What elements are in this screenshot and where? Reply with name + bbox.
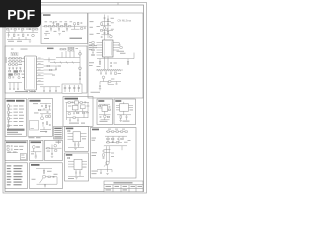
transistor Q201	[73, 22, 76, 25]
resistor RJ0	[68, 130, 70, 131]
ground	[106, 173, 108, 174]
label g1	[47, 150, 51, 153]
label table row 7	[7, 182, 12, 183]
transistor Q601	[68, 112, 71, 115]
label D title	[30, 100, 41, 102]
resistor RK2	[108, 109, 110, 110]
capacitor C305	[119, 43, 121, 45]
wire below U401	[27, 90, 35, 92]
wire right riser	[79, 50, 81, 86]
wire mid chain	[107, 146, 110, 165]
wire stub rows	[9, 106, 12, 126]
wire left stub	[99, 107, 103, 109]
J2 reset circuit	[66, 154, 87, 179]
capacitor CE1	[64, 85, 66, 92]
pin lines right	[81, 134, 87, 137]
wire bottom web	[97, 165, 112, 173]
resistor R203	[61, 26, 63, 27]
resistor strip RA3	[8, 64, 22, 66]
pin lines right	[82, 161, 87, 164]
label legend row5	[54, 137, 61, 138]
wire top bus	[105, 136, 127, 138]
box: J2 reset circuit	[65, 153, 89, 181]
label table row 1	[7, 165, 12, 166]
box: K2 sub circuit	[114, 99, 136, 125]
label row text	[14, 145, 18, 148]
bus hatch marks	[11, 52, 19, 55]
label top caption	[11, 48, 14, 51]
label cell a	[106, 186, 112, 187]
resistor R903	[121, 138, 123, 139]
capacitor CB2	[43, 91, 45, 92]
resistor R203b	[65, 23, 67, 24]
pin lines left of U301	[97, 43, 103, 56]
resistor row top	[106, 131, 127, 133]
rung2	[104, 152, 111, 154]
label row text3	[8, 151, 12, 154]
resistor R513	[46, 116, 48, 117]
legend rows	[54, 128, 61, 139]
resistor R502	[8, 111, 9, 114]
resistor R202b	[57, 23, 59, 24]
resistor R205	[78, 22, 79, 25]
label cell d	[131, 186, 136, 187]
wire antenna feed	[105, 15, 109, 41]
wire bottom run	[40, 87, 60, 91]
pin lines left	[68, 134, 74, 140]
wire main	[46, 141, 62, 154]
capacitor C101	[11, 29, 13, 30]
resistor R204	[69, 26, 71, 27]
label value column r4	[14, 114, 18, 117]
resistor R515	[46, 122, 47, 125]
resistor RK3	[107, 116, 109, 117]
resistor R602	[80, 102, 82, 103]
pin lines right of U301	[113, 43, 119, 51]
resistor R304	[100, 30, 102, 31]
label i1	[47, 170, 52, 173]
wire rail below U301	[97, 53, 134, 62]
zone tick mark top	[117, 3, 119, 6]
resistor R905	[116, 142, 118, 143]
resistor R104b	[36, 29, 38, 30]
svg-text:CN MLSma: CN MLSma	[118, 18, 132, 22]
ground	[35, 157, 37, 158]
capacitor C603	[73, 113, 75, 114]
wire mid	[99, 111, 111, 114]
resistor R902	[112, 138, 114, 139]
label mid specks	[46, 30, 49, 33]
E contents	[6, 141, 27, 159]
box small insert rect	[20, 154, 26, 160]
I output stage circuit	[31, 164, 58, 187]
resistor R422	[50, 69, 52, 70]
wire bottom-left grid	[8, 83, 22, 89]
IC UK1	[102, 105, 108, 111]
inductor L203	[65, 26, 67, 27]
wire mid	[46, 177, 58, 184]
wire below U301	[105, 57, 109, 70]
resistor R503	[8, 117, 9, 120]
label caption	[100, 121, 108, 122]
transistor Q511	[41, 117, 44, 120]
SW filter circuit	[43, 14, 87, 39]
wire rung4	[102, 34, 112, 36]
capacitor C101b	[29, 29, 31, 30]
pin lines right of U401	[37, 59, 44, 84]
wire row3	[7, 152, 18, 154]
box: G small circuit	[45, 140, 63, 160]
IC U301	[103, 40, 114, 57]
wire low	[101, 118, 110, 120]
ground	[75, 178, 77, 179]
resistor R106	[23, 34, 24, 37]
capacitor CJ4	[79, 170, 81, 172]
box: audio amplifier M	[63, 97, 93, 127]
capacitor C201	[53, 23, 55, 24]
box: SW filter section	[41, 13, 88, 44]
box heatsink outline	[30, 121, 39, 131]
resistor R512	[38, 109, 40, 110]
box: tuner IF section	[88, 13, 143, 98]
box: H parts table	[5, 163, 28, 189]
label spec	[111, 17, 114, 20]
capacitor C901	[117, 138, 119, 139]
label heading	[114, 182, 133, 183]
resistor RF1	[37, 146, 39, 147]
wire collector	[71, 25, 80, 29]
wire rung2	[102, 25, 112, 27]
label E title row	[6, 141, 27, 143]
label pin captions	[45, 20, 48, 23]
resistor R105	[14, 34, 15, 37]
label f1	[31, 152, 34, 155]
label bottom caption	[70, 38, 83, 39]
box: L tuner power	[91, 128, 137, 179]
resistor R102	[14, 29, 16, 30]
wire lower	[7, 37, 31, 40]
title block table	[104, 181, 143, 192]
label mid specks	[58, 65, 61, 68]
capacitor CI2	[44, 185, 46, 186]
label M title	[65, 98, 79, 100]
ground	[120, 120, 122, 121]
label cell g	[123, 189, 128, 190]
label mid specks2	[114, 62, 117, 65]
resistor R604	[83, 112, 85, 113]
wire stub	[44, 34, 50, 37]
label side text2	[92, 154, 97, 157]
label C title bar	[7, 100, 16, 102]
wire output run	[100, 79, 121, 85]
caption under box D	[29, 137, 41, 138]
resistor R206	[81, 28, 83, 29]
label i2	[32, 178, 36, 181]
IC UJ2	[74, 159, 82, 169]
resistor RK4	[120, 116, 121, 119]
K2 circuit	[115, 100, 133, 121]
label heatsink mark	[31, 127, 34, 129]
resistor R309	[120, 47, 122, 48]
resistor R308	[92, 49, 94, 50]
Section B circuit	[6, 47, 82, 93]
PDF badge	[0, 0, 41, 27]
bus band with ticks	[96, 69, 123, 71]
label insert mark	[21, 157, 25, 159]
label j1a	[82, 137, 86, 140]
resistor R906	[103, 154, 104, 157]
capacitor C902	[112, 142, 114, 143]
resistor R420	[79, 73, 80, 76]
capacitor C311	[99, 85, 101, 86]
top-left input section	[6, 29, 38, 42]
resistor R305	[107, 31, 108, 34]
label legend row2	[54, 132, 61, 133]
resistor strip RA5	[14, 74, 16, 75]
pin lines right	[129, 106, 134, 108]
label run specks	[111, 78, 114, 81]
transistor Q404	[79, 67, 82, 70]
wire top	[99, 104, 110, 105]
wire top	[36, 169, 52, 171]
label table row 5	[7, 176, 12, 177]
wire rail upper	[56, 57, 80, 59]
capacitor C203 shunt	[58, 27, 60, 29]
label value column r5	[14, 117, 19, 120]
resistor R603	[77, 112, 79, 113]
label grid row3	[89, 48, 93, 51]
capacitor C604	[69, 120, 71, 121]
rung1	[104, 148, 111, 150]
label bottom note	[92, 170, 99, 173]
ground	[74, 149, 76, 150]
resistor R301	[107, 19, 108, 22]
connector block dark 1	[14, 70, 19, 72]
resistor group RB2	[68, 47, 70, 48]
capacitor C422	[79, 79, 81, 80]
inductor LG1	[47, 148, 49, 149]
capacitor C601	[72, 102, 74, 103]
diode D501	[8, 125, 10, 127]
capacitor C103	[8, 35, 10, 36]
capacitor C515	[49, 125, 51, 126]
capacitor strip CA1	[9, 67, 11, 68]
label val1	[124, 141, 128, 144]
component row RA6	[9, 77, 11, 78]
transistor QG1	[54, 144, 57, 147]
label j2a	[83, 166, 87, 169]
ground	[29, 41, 31, 42]
resistor strip RA2	[8, 60, 25, 62]
regulator D circuit	[30, 100, 52, 133]
wire main signal line	[43, 25, 87, 27]
label I title	[31, 164, 40, 166]
label G caption	[56, 142, 62, 143]
title block grid	[104, 185, 143, 192]
svg-text:PDF: PDF	[7, 6, 35, 22]
wire rung1	[102, 21, 112, 23]
resistor RI2	[48, 176, 50, 177]
transistor Q301	[110, 35, 113, 38]
wire top	[66, 103, 90, 121]
capacitor C512	[49, 105, 51, 106]
resistor R201	[45, 26, 47, 27]
wire bottom	[37, 183, 58, 185]
resistor R101	[7, 29, 9, 30]
pin strip right inside U401	[34, 58, 36, 89]
transistor Q401	[79, 52, 82, 55]
sheet inner border frame	[5, 5, 144, 192]
resistor R605	[73, 117, 75, 118]
label d2	[34, 112, 39, 115]
capacitor C502	[8, 115, 10, 116]
resistor R104	[32, 29, 34, 30]
box: I output stage	[30, 163, 63, 189]
capacitor C304	[92, 47, 94, 48]
transistor QK1	[104, 115, 107, 118]
label bottom note 3	[7, 134, 22, 135]
tuner IF circuit	[89, 15, 134, 93]
label bottom caption	[15, 91, 28, 92]
resistor R601	[68, 102, 70, 103]
connector block dark 2	[8, 73, 13, 75]
box: legend table	[54, 127, 63, 140]
capacitor C309	[110, 71, 112, 72]
capacitor CJ3	[75, 170, 77, 172]
label below band	[118, 72, 121, 75]
box: regulator D	[28, 99, 53, 137]
transistor QI1	[43, 175, 46, 178]
capacitor CJ2	[78, 142, 80, 144]
wire emitter	[104, 164, 106, 167]
capacitor CJ1	[74, 142, 76, 144]
box: Section B main board	[5, 46, 87, 93]
pin label specks	[38, 57, 41, 60]
power supply C circuit	[7, 100, 25, 135]
capacitor C306	[110, 62, 112, 63]
capacitor C503	[8, 121, 10, 122]
resistor R303	[104, 27, 105, 30]
wire bottom	[40, 127, 51, 130]
label J2 title	[66, 154, 73, 156]
label cell b	[115, 186, 120, 187]
transistor QF1	[32, 146, 35, 149]
wire	[31, 148, 42, 154]
wire low	[121, 118, 127, 121]
label bottom caption	[91, 91, 101, 94]
label K1 title	[98, 100, 104, 102]
wire mid connections	[44, 66, 61, 74]
IC U602	[81, 105, 86, 109]
resistor R103	[22, 29, 24, 30]
IC U801	[120, 104, 129, 111]
IC U601a	[75, 101, 79, 104]
label value row	[26, 28, 31, 31]
ground	[51, 156, 53, 157]
resistor R501	[8, 105, 9, 108]
wire rail wide	[104, 146, 127, 150]
label left specks	[89, 61, 94, 64]
resistor R312	[109, 81, 111, 82]
label lower	[8, 40, 14, 43]
label above row	[108, 128, 111, 131]
label bottom caption	[69, 123, 79, 124]
label cell e	[138, 186, 143, 187]
label caption under D	[29, 137, 35, 138]
label vertical margin text	[5, 57, 8, 63]
capacitor C204 shunt	[66, 27, 68, 29]
transistor Q101	[32, 34, 35, 37]
capacitor CB1	[9, 89, 11, 90]
capacitor CG1	[51, 154, 53, 155]
wire stub right	[108, 82, 114, 85]
resistor R514	[49, 115, 50, 118]
capacitor CI1	[53, 176, 55, 177]
label cell c	[123, 186, 128, 187]
wire left rail	[8, 104, 10, 131]
H parts table rows	[7, 165, 23, 185]
capacitor CK1	[109, 106, 111, 107]
capacitor C102	[18, 29, 20, 30]
label d1	[33, 102, 38, 105]
box: power supply C	[5, 99, 27, 137]
capacitor C304c	[92, 52, 94, 53]
ground	[58, 34, 60, 35]
label j2b	[68, 177, 74, 180]
box title block	[104, 181, 143, 192]
box: E connector list	[5, 140, 28, 160]
ground	[45, 131, 47, 132]
capacitor C302	[107, 24, 109, 25]
wire bottom	[68, 145, 84, 147]
wire mid2	[40, 114, 51, 117]
resistor RI1	[43, 171, 44, 174]
resistor RE1	[7, 146, 9, 147]
capacitor C205	[81, 23, 83, 24]
resistor RG1	[55, 150, 57, 151]
capacitor C305b	[101, 37, 103, 38]
label table row 6	[7, 179, 11, 180]
capacitor C904	[103, 158, 105, 159]
transistor Q901	[106, 161, 109, 164]
capacitor CE12	[11, 149, 13, 150]
label grid row2	[89, 46, 93, 49]
label Section B title	[47, 48, 54, 50]
label left pin specks	[90, 20, 94, 23]
pin lines left	[116, 106, 120, 110]
resistor RJ1	[68, 157, 70, 158]
label legend row3	[54, 134, 61, 135]
label bottom note dark	[7, 129, 25, 131]
inductor L202	[57, 26, 59, 27]
capacitor CK3	[126, 115, 128, 116]
label stack specks	[111, 21, 114, 24]
wire rung3	[100, 29, 113, 31]
capacitor CF1	[35, 155, 37, 156]
label legend header	[54, 128, 61, 129]
capacitor C514	[42, 123, 44, 124]
box: F small circuit	[30, 140, 44, 160]
wire top rail	[40, 104, 51, 106]
pin lines left	[68, 161, 74, 167]
label value column r1	[14, 105, 19, 108]
label table row 8	[7, 184, 11, 185]
wire low	[67, 114, 89, 120]
wire main	[6, 30, 38, 33]
label F title	[31, 141, 42, 143]
wire drops q	[62, 51, 74, 58]
wire bottom	[68, 173, 84, 176]
